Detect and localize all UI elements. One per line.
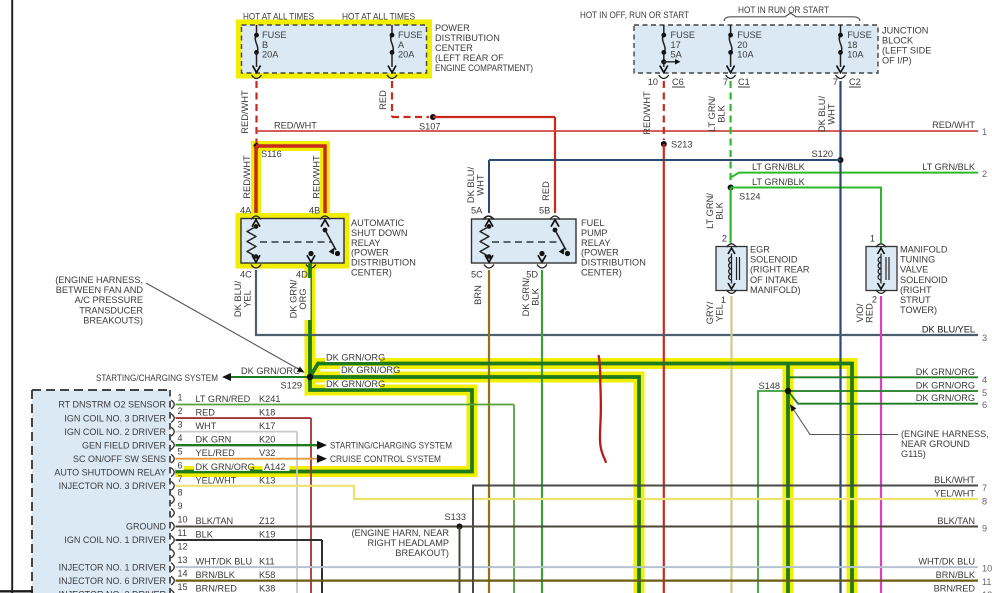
svg-text:K19: K19 (259, 530, 275, 540)
svg-text:(RIGHT: (RIGHT (900, 285, 932, 295)
svg-text:BLK: BLK (196, 530, 214, 540)
svg-text:INJECTOR NO. 1 DRIVER: INJECTOR NO. 1 DRIVER (59, 562, 167, 572)
svg-text:DK BLU/YEL: DK BLU/YEL (922, 325, 975, 335)
svg-text:OF I/P): OF I/P) (882, 56, 912, 66)
svg-text:K11: K11 (259, 557, 275, 567)
svg-text:OF INTAKE: OF INTAKE (750, 275, 798, 285)
svg-text:RED: RED (865, 303, 875, 323)
svg-text:7: 7 (982, 483, 987, 493)
svg-text:FUSE: FUSE (671, 30, 696, 40)
svg-text:STARTING/CHARGING SYSTEM: STARTING/CHARGING SYSTEM (96, 373, 218, 383)
svg-text:RED/WHT: RED/WHT (642, 91, 652, 135)
svg-text:(RIGHT REAR: (RIGHT REAR (750, 265, 810, 275)
svg-text:8: 8 (178, 487, 183, 497)
svg-text:5C: 5C (471, 270, 483, 280)
svg-text:CENTER): CENTER) (581, 268, 622, 278)
svg-text:INJECTOR NO. 3 DRIVER: INJECTOR NO. 3 DRIVER (59, 481, 167, 491)
svg-text:18: 18 (847, 40, 857, 50)
svg-text:DK GRN/ORG: DK GRN/ORG (196, 462, 255, 472)
svg-text:BLK: BLK (715, 201, 725, 219)
svg-text:4: 4 (178, 433, 183, 443)
svg-text:BLOCK: BLOCK (882, 36, 914, 46)
svg-text:WHT/DK BLU: WHT/DK BLU (918, 557, 975, 567)
svg-text:VIO/: VIO/ (855, 303, 865, 322)
svg-text:LT GRN/: LT GRN/ (707, 96, 717, 132)
svg-text:DK GRN/ORG: DK GRN/ORG (241, 366, 300, 376)
svg-text:INJECTOR NO. 2 DRIVER: INJECTOR NO. 2 DRIVER (59, 589, 167, 593)
svg-text:DK BLU/: DK BLU/ (817, 96, 827, 133)
svg-text:FUEL: FUEL (581, 218, 605, 228)
svg-text:HOT IN OFF, RUN OR START: HOT IN OFF, RUN OR START (580, 10, 689, 20)
svg-text:2: 2 (872, 295, 877, 305)
svg-text:DK GRN/ORG: DK GRN/ORG (326, 353, 385, 363)
svg-text:20: 20 (737, 40, 747, 50)
svg-text:4A: 4A (240, 206, 252, 216)
svg-text:1: 1 (870, 234, 875, 244)
svg-text:AUTOMATIC: AUTOMATIC (351, 218, 405, 228)
svg-text:BRN/RED: BRN/RED (196, 584, 238, 593)
svg-text:S107: S107 (419, 122, 440, 132)
svg-text:BLK: BLK (531, 287, 541, 305)
svg-text:6: 6 (178, 460, 183, 470)
svg-text:G115): G115) (901, 449, 926, 459)
svg-text:S148: S148 (759, 381, 780, 391)
svg-text:FUSE: FUSE (398, 30, 423, 40)
svg-text:DISTRIBUTION: DISTRIBUTION (581, 258, 646, 268)
svg-text:S124: S124 (739, 192, 760, 202)
svg-text:7: 7 (833, 77, 838, 87)
svg-text:TUNING: TUNING (900, 255, 935, 265)
svg-text:GEN FIELD DRIVER: GEN FIELD DRIVER (82, 440, 167, 450)
svg-text:WHT: WHT (827, 103, 837, 124)
svg-text:K58: K58 (259, 570, 275, 580)
svg-text:10: 10 (178, 514, 188, 524)
svg-text:WHT: WHT (476, 174, 486, 195)
svg-text:RED/WHT: RED/WHT (274, 121, 317, 131)
svg-text:5A: 5A (671, 50, 683, 60)
svg-text:DK GRN/: DK GRN/ (289, 279, 299, 318)
svg-text:9: 9 (178, 501, 183, 511)
svg-text:GRY/: GRY/ (705, 301, 715, 324)
svg-text:CENTER: CENTER (435, 43, 473, 53)
svg-text:10A: 10A (847, 50, 864, 60)
svg-text:5: 5 (982, 388, 987, 398)
svg-text:1: 1 (982, 127, 987, 137)
svg-text:C1: C1 (738, 77, 750, 87)
svg-text:3: 3 (178, 420, 183, 430)
svg-text:9: 9 (982, 524, 987, 534)
svg-text:20A: 20A (262, 50, 279, 60)
svg-text:Z12: Z12 (259, 516, 275, 526)
svg-text:LT GRN/RED: LT GRN/RED (196, 394, 251, 404)
svg-text:K20: K20 (259, 435, 275, 445)
svg-text:8: 8 (982, 497, 987, 507)
svg-text:RED: RED (196, 408, 216, 418)
svg-text:IGN COIL NO. 3 DRIVER: IGN COIL NO. 3 DRIVER (64, 413, 166, 423)
svg-text:2: 2 (982, 169, 987, 179)
svg-text:(LEFT REAR OF: (LEFT REAR OF (435, 53, 504, 63)
svg-text:VALVE: VALVE (900, 265, 928, 275)
svg-text:YEL/WHT: YEL/WHT (934, 489, 975, 499)
svg-text:4: 4 (982, 375, 987, 385)
svg-text:S213: S213 (671, 140, 692, 150)
svg-text:DK GRN: DK GRN (196, 435, 232, 445)
svg-text:BETWEEN FAN AND: BETWEEN FAN AND (56, 285, 144, 295)
svg-text:13: 13 (178, 555, 188, 565)
svg-text:DK GRN/ORG: DK GRN/ORG (916, 381, 975, 391)
svg-text:YEL: YEL (243, 290, 253, 308)
svg-text:LT GRN/BLK: LT GRN/BLK (752, 177, 806, 187)
svg-text:(ENGINE HARNESS,: (ENGINE HARNESS, (901, 429, 989, 439)
svg-text:SOLENOID: SOLENOID (750, 255, 798, 265)
svg-text:GROUND: GROUND (126, 522, 166, 532)
svg-text:DISTRIBUTION: DISTRIBUTION (435, 33, 500, 43)
svg-text:1: 1 (178, 393, 183, 403)
svg-text:JUNCTION: JUNCTION (882, 26, 928, 36)
svg-text:EGR: EGR (750, 245, 770, 255)
svg-text:IGN COIL NO. 1 DRIVER: IGN COIL NO. 1 DRIVER (64, 535, 166, 545)
svg-text:HOT AT ALL TIMES: HOT AT ALL TIMES (342, 12, 415, 22)
svg-text:17: 17 (671, 40, 681, 50)
svg-text:BREAKOUTS): BREAKOUTS) (83, 315, 143, 325)
svg-text:POWER: POWER (435, 23, 470, 33)
svg-text:PUMP: PUMP (581, 228, 608, 238)
svg-text:5A: 5A (471, 206, 483, 216)
svg-text:BRN/BLK: BRN/BLK (936, 570, 976, 580)
svg-text:(ENGINE HARN, NEAR: (ENGINE HARN, NEAR (351, 528, 449, 538)
svg-text:10: 10 (982, 564, 992, 574)
svg-text:RED/WHT: RED/WHT (240, 90, 250, 134)
svg-text:14: 14 (178, 569, 188, 579)
svg-text:BLK: BLK (717, 104, 727, 122)
svg-text:ORG: ORG (298, 288, 308, 309)
svg-text:TRANSDUCER: TRANSDUCER (79, 305, 143, 315)
svg-text:DK BLU/: DK BLU/ (466, 167, 476, 204)
svg-text:K18: K18 (259, 408, 275, 418)
svg-text:RED: RED (378, 90, 388, 110)
svg-text:S133: S133 (445, 512, 466, 522)
svg-text:DK GRN/: DK GRN/ (521, 277, 531, 316)
svg-text:C6: C6 (672, 77, 684, 87)
svg-text:15: 15 (178, 582, 188, 592)
svg-text:HOT AT ALL TIMES: HOT AT ALL TIMES (243, 12, 314, 22)
svg-text:TOWER): TOWER) (900, 305, 937, 315)
svg-text:10: 10 (648, 77, 658, 87)
svg-text:3: 3 (982, 333, 987, 343)
svg-text:(LEFT SIDE: (LEFT SIDE (882, 46, 931, 56)
svg-text:DISTRIBUTION: DISTRIBUTION (351, 258, 416, 268)
svg-text:BLK/TAN: BLK/TAN (937, 516, 975, 526)
svg-text:10A: 10A (737, 50, 754, 60)
svg-text:4B: 4B (309, 206, 320, 216)
svg-text:20A: 20A (398, 50, 415, 60)
svg-text:11: 11 (982, 577, 992, 587)
svg-text:(POWER: (POWER (351, 248, 389, 258)
svg-text:IGN COIL NO. 2 DRIVER: IGN COIL NO. 2 DRIVER (64, 427, 166, 437)
svg-text:C2: C2 (849, 77, 861, 87)
svg-text:11: 11 (178, 528, 187, 538)
svg-text:2: 2 (178, 406, 183, 416)
svg-text:A: A (398, 40, 405, 50)
svg-text:STRUT: STRUT (900, 295, 931, 305)
svg-text:FUSE: FUSE (262, 30, 287, 40)
svg-text:FUSE: FUSE (737, 30, 762, 40)
svg-text:BLK/WHT: BLK/WHT (934, 475, 975, 485)
svg-text:DK GRN/ORG: DK GRN/ORG (916, 393, 975, 403)
svg-text:(POWER: (POWER (581, 248, 619, 258)
svg-text:MANIFOLD: MANIFOLD (900, 245, 948, 255)
svg-text:RED/WHT: RED/WHT (312, 155, 322, 199)
svg-text:CRUISE CONTROL SYSTEM: CRUISE CONTROL SYSTEM (330, 454, 441, 464)
svg-text:K241: K241 (259, 394, 280, 404)
svg-text:YEL: YEL (715, 304, 725, 322)
svg-text:5B: 5B (539, 206, 550, 216)
svg-text:LT GRN/BLK: LT GRN/BLK (922, 162, 976, 172)
svg-text:K17: K17 (259, 421, 275, 431)
svg-text:DK GRN/ORG: DK GRN/ORG (916, 367, 975, 377)
svg-text:K38: K38 (259, 584, 275, 593)
svg-text:RELAY: RELAY (351, 238, 380, 248)
svg-text:RIGHT HEADLAMP: RIGHT HEADLAMP (367, 538, 449, 548)
svg-text:4C: 4C (240, 270, 252, 280)
svg-text:7: 7 (723, 77, 728, 87)
svg-text:6: 6 (982, 400, 987, 410)
svg-text:YEL/WHT: YEL/WHT (196, 475, 237, 485)
svg-text:7: 7 (178, 474, 183, 484)
svg-text:12: 12 (178, 542, 188, 552)
svg-text:RED: RED (541, 181, 551, 201)
svg-text:BRN/BLK: BRN/BLK (196, 570, 236, 580)
svg-text:SHUT DOWN: SHUT DOWN (351, 228, 407, 238)
svg-text:DK GRN/ORG: DK GRN/ORG (326, 379, 385, 389)
svg-text:LT GRN/BLK: LT GRN/BLK (752, 162, 806, 172)
svg-text:V32: V32 (259, 448, 275, 458)
svg-text:5: 5 (178, 447, 183, 457)
svg-text:RT DNSTRM O2 SENSOR: RT DNSTRM O2 SENSOR (58, 400, 166, 410)
svg-text:NEAR GROUND: NEAR GROUND (901, 439, 970, 449)
svg-text:MANIFOLD): MANIFOLD) (750, 285, 801, 295)
svg-text:K13: K13 (259, 475, 275, 485)
svg-text:2: 2 (722, 234, 727, 244)
svg-text:WHT: WHT (196, 421, 217, 431)
svg-text:FUSE: FUSE (847, 30, 872, 40)
svg-text:S120: S120 (812, 149, 833, 159)
svg-text:S129: S129 (281, 381, 302, 391)
svg-text:1: 1 (721, 295, 726, 305)
svg-text:AUTO SHUTDOWN RELAY: AUTO SHUTDOWN RELAY (54, 467, 166, 477)
svg-text:RED/WHT: RED/WHT (932, 120, 975, 130)
svg-text:RED/WHT: RED/WHT (242, 155, 252, 199)
svg-text:A142: A142 (264, 462, 285, 472)
svg-text:SC ON/OFF SW SENS: SC ON/OFF SW SENS (73, 454, 166, 464)
svg-text:DK BLU/: DK BLU/ (233, 281, 243, 318)
svg-text:S116: S116 (261, 149, 282, 159)
svg-text:BRN/RED: BRN/RED (934, 584, 976, 593)
svg-text:DK GRN/ORG: DK GRN/ORG (341, 365, 400, 375)
svg-text:LT GRN/: LT GRN/ (705, 193, 715, 229)
svg-text:SOLENOID: SOLENOID (900, 275, 948, 285)
svg-text:INJECTOR NO. 6 DRIVER: INJECTOR NO. 6 DRIVER (59, 576, 167, 586)
svg-text:BLK/TAN: BLK/TAN (196, 516, 234, 526)
svg-text:HOT IN RUN OR START: HOT IN RUN OR START (738, 5, 829, 15)
svg-text:BRN: BRN (473, 285, 483, 305)
svg-text:ENGINE COMPARTMENT): ENGINE COMPARTMENT) (435, 63, 533, 73)
svg-text:A/C PRESSURE: A/C PRESSURE (75, 295, 143, 305)
svg-text:(ENGINE HARNESS,: (ENGINE HARNESS, (55, 275, 143, 285)
svg-text:STARTING/CHARGING SYSTEM: STARTING/CHARGING SYSTEM (330, 441, 452, 451)
svg-text:WHT/DK BLU: WHT/DK BLU (196, 557, 253, 567)
svg-text:RELAY: RELAY (581, 238, 610, 248)
svg-text:BREAKOUT): BREAKOUT) (395, 548, 449, 558)
svg-text:YEL/RED: YEL/RED (196, 448, 236, 458)
svg-text:CENTER): CENTER) (351, 268, 392, 278)
svg-text:B: B (262, 40, 268, 50)
